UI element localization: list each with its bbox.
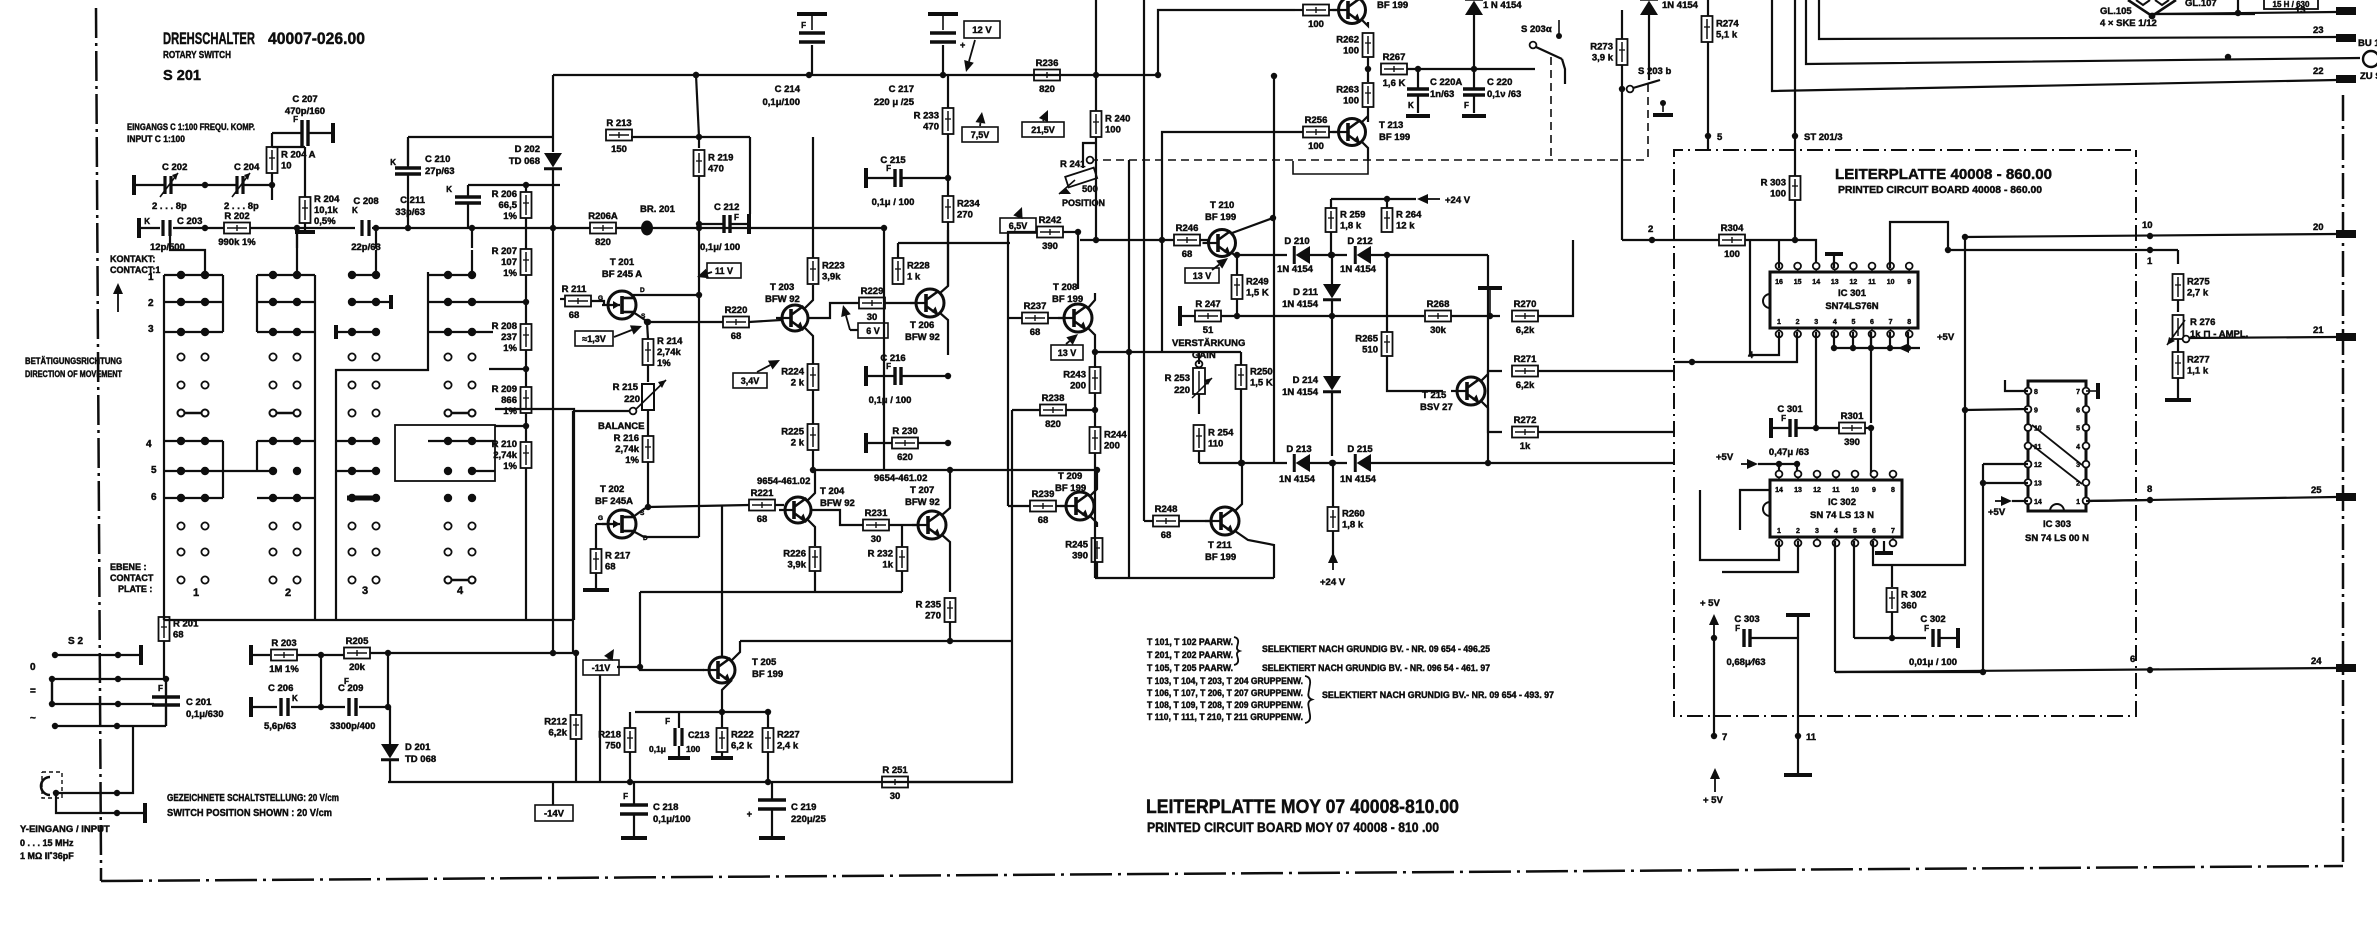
svg-text:820: 820 xyxy=(1045,419,1061,430)
svg-text:100: 100 xyxy=(1105,125,1121,136)
gnd stem c303 xyxy=(1797,615,1799,736)
R217 bottom xyxy=(595,573,597,588)
svg-text:6,5V: 6,5V xyxy=(1009,221,1028,231)
ground bottom c303 xyxy=(1784,773,1812,777)
svg-text:C 301: C 301 xyxy=(1777,404,1803,415)
T205 base up xyxy=(639,592,641,667)
R225 down xyxy=(812,450,814,470)
svg-text:R301: R301 xyxy=(1841,411,1864,422)
IC302 pin4 route xyxy=(1834,541,1836,672)
svg-text:BSV 27: BSV 27 xyxy=(1420,402,1453,413)
IC302 pin8/9 up xyxy=(1870,465,1872,476)
svg-text:1,1 k: 1,1 k xyxy=(2187,366,2209,377)
svg-text:2,7 k: 2,7 k xyxy=(2187,288,2209,299)
resistor R245 xyxy=(1065,538,1102,562)
svg-text:30: 30 xyxy=(890,791,901,802)
svg-text:68: 68 xyxy=(1161,530,1172,541)
IC301 pin10 route xyxy=(1890,222,1948,268)
potentiometer R276 xyxy=(2167,315,2185,345)
svg-text:5: 5 xyxy=(151,465,157,476)
svg-text:INPUT C 1:100: INPUT C 1:100 xyxy=(127,134,185,144)
svg-text:3,4V: 3,4V xyxy=(741,376,760,386)
S2 junction g xyxy=(52,723,58,729)
resistor R234 xyxy=(943,196,981,222)
svg-text:T 203: T 203 xyxy=(770,282,794,293)
R234 bottom xyxy=(947,222,949,286)
svg-text:0,1μ/100: 0,1μ/100 xyxy=(653,814,691,825)
svg-text:100: 100 xyxy=(1343,46,1359,57)
connector 20 xyxy=(2336,230,2356,238)
wire T203-R229 xyxy=(808,303,859,318)
svg-text:7: 7 xyxy=(1889,319,1893,326)
IC301 pin8 down xyxy=(1907,332,1909,348)
svg-text:≈1,3V: ≈1,3V xyxy=(582,334,605,344)
capacitor C203 xyxy=(144,216,202,253)
svg-text:390: 390 xyxy=(1042,241,1058,252)
C220A stem top xyxy=(1417,69,1419,89)
svg-text:R 254: R 254 xyxy=(1208,428,1234,439)
13Va leader xyxy=(1066,334,1078,345)
svg-text:C 206: C 206 xyxy=(268,683,293,694)
R238-R251 link xyxy=(1011,410,1013,641)
resistor R247 xyxy=(1195,299,1221,336)
wire T201 source xyxy=(633,312,647,322)
T212 emitter xyxy=(1362,20,1368,26)
label D213 xyxy=(1279,444,1316,485)
junction GL xyxy=(2235,10,2241,16)
svg-text:1N 4154: 1N 4154 xyxy=(1277,264,1314,275)
3,4V leader xyxy=(757,360,780,372)
IC302 pin7 stem xyxy=(1883,541,1885,551)
svg-text:T 201: T 201 xyxy=(610,257,635,268)
C218 ground xyxy=(621,836,647,840)
svg-text:1: 1 xyxy=(148,272,154,283)
C211 stem xyxy=(467,203,469,228)
label R276 xyxy=(2190,317,2248,340)
21,5V leader xyxy=(1039,110,1048,122)
R264 top xyxy=(1386,199,1388,208)
diode D-1N4154 a xyxy=(1465,0,1483,15)
1,3V leader xyxy=(614,325,642,337)
num 25 xyxy=(2311,485,2322,496)
IC303 pin14 wire xyxy=(2012,500,2028,502)
svg-text:R 264: R 264 xyxy=(1396,210,1422,221)
resistor R259 xyxy=(1326,208,1366,232)
R231 left xyxy=(812,510,863,525)
svg-text:20k: 20k xyxy=(349,662,366,673)
D214 bottom xyxy=(1331,393,1333,456)
S201 inner box xyxy=(395,425,495,481)
diode D210 xyxy=(1294,246,1310,264)
svg-text:T 101, T 102 PAARW.: T 101, T 102 PAARW. xyxy=(1147,637,1233,647)
svg-text:R229: R229 xyxy=(861,286,884,297)
S201 group4 wiring xyxy=(428,275,526,471)
R223 up xyxy=(812,137,814,224)
T208 emitter xyxy=(1088,328,1095,368)
IC301 rail dot 1 xyxy=(1850,345,1856,351)
title PCB 860 xyxy=(1838,184,2042,196)
resistor R212 xyxy=(544,715,581,739)
svg-text:68: 68 xyxy=(1030,327,1041,338)
junction R212 top xyxy=(573,650,579,656)
C302 right xyxy=(1940,637,1956,639)
svg-text:68: 68 xyxy=(1038,515,1049,526)
gnd stem c303 b xyxy=(1797,736,1799,773)
junction rail b xyxy=(806,72,812,78)
diode D213 xyxy=(1294,454,1310,472)
R241 top wire xyxy=(1083,143,1096,168)
line24 inner xyxy=(1835,671,1983,673)
wire R208-R209 xyxy=(525,350,527,387)
svg-text:390: 390 xyxy=(1072,551,1088,562)
line 20 xyxy=(1965,234,2336,237)
transistor T213 xyxy=(1333,119,1366,146)
svg-text:SELEKTIERT NACH GRUNDIG B: SELEKTIERT NACH GRUNDIG BV. - NR. 09 654… xyxy=(1262,644,1490,654)
loop T204 xyxy=(814,533,816,546)
voltage label 6V xyxy=(858,323,888,338)
svg-text:1k ⊓ - AMPL.: 1k ⊓ - AMPL. xyxy=(2190,329,2248,340)
wire R219 hang xyxy=(698,137,700,148)
R216 bottom xyxy=(647,462,649,507)
R242 right xyxy=(1063,231,1078,233)
R244 down xyxy=(1094,453,1096,578)
R247 left xyxy=(1181,315,1195,317)
sel line3b xyxy=(1262,663,1490,673)
connector 24 xyxy=(2336,664,2356,672)
svg-text:270: 270 xyxy=(957,210,973,221)
R201 bottom xyxy=(164,641,166,679)
R204 top xyxy=(304,147,306,197)
svg-text:BF 199: BF 199 xyxy=(1205,212,1236,223)
rail y316 xyxy=(1221,315,1424,317)
svg-text:R223: R223 xyxy=(822,261,845,272)
svg-text:C 207: C 207 xyxy=(292,94,317,105)
text BETAETIGUNGSRICHTUNG xyxy=(25,356,122,366)
text VERSTAERKUNG xyxy=(1172,338,1245,349)
svg-text:13: 13 xyxy=(1794,487,1802,494)
R241 wiper circle xyxy=(1087,157,1094,164)
C301-R301 xyxy=(1797,427,1839,429)
wire C208 right xyxy=(372,227,590,229)
capacitor C302 xyxy=(1924,624,1939,647)
text KONTAKT xyxy=(110,254,155,264)
svg-text:7,5V: 7,5V xyxy=(971,130,990,140)
num 23 xyxy=(2313,25,2324,36)
title LEITERPLATTE 860 xyxy=(1835,167,2052,183)
resistor R302 xyxy=(1887,588,1927,612)
svg-text:1 MΩ II˚36pF: 1 MΩ II˚36pF xyxy=(20,851,74,861)
C216 left xyxy=(868,375,894,377)
svg-text:6: 6 xyxy=(2130,654,2135,665)
svg-text:+24 V: +24 V xyxy=(1320,577,1346,588)
svg-text:237: 237 xyxy=(501,332,517,343)
svg-text:12 k: 12 k xyxy=(1396,221,1415,232)
junction bus1274 xyxy=(1271,73,1277,79)
R203-R205 xyxy=(297,654,344,656)
svg-text:8: 8 xyxy=(2147,484,2152,495)
junction y641 xyxy=(947,638,953,644)
transistor T215 xyxy=(1451,377,1485,405)
C211 stem up xyxy=(467,185,469,197)
label T211 xyxy=(1205,540,1236,563)
junction ST201 xyxy=(1792,133,1798,139)
junction R264 xyxy=(1384,252,1390,258)
resistor R273 xyxy=(1590,39,1627,65)
svg-text:5,1 k: 5,1 k xyxy=(1716,30,1738,41)
C214 stem xyxy=(811,45,813,75)
C213 top xyxy=(678,712,680,728)
S2 wire pole2 xyxy=(52,678,166,680)
resistor R256 xyxy=(1303,115,1329,152)
resistor R244 xyxy=(1090,427,1128,453)
label GL105b xyxy=(2100,18,2157,29)
transistor T204 xyxy=(779,497,811,523)
C211 wire left xyxy=(468,184,520,186)
IC U302 SN74LS13N xyxy=(1763,471,1902,547)
svg-text:4: 4 xyxy=(1833,319,1837,326)
line 25 xyxy=(2086,497,2336,501)
wire C208 to col3 xyxy=(375,250,377,275)
svg-text:100: 100 xyxy=(686,744,700,754)
R201 top xyxy=(163,617,165,620)
resistor R222 xyxy=(717,728,754,752)
R223 top xyxy=(812,224,814,258)
svg-text:1%: 1% xyxy=(657,358,671,369)
resistor R220 xyxy=(723,305,749,342)
junction gain xyxy=(1092,349,1098,355)
svg-text:2: 2 xyxy=(285,587,291,599)
C302 rail xyxy=(1854,637,1926,639)
C220 stem bot xyxy=(1473,95,1475,113)
svg-text:R 214: R 214 xyxy=(657,336,683,347)
svg-text:100: 100 xyxy=(1724,249,1740,260)
junction T205 base xyxy=(637,664,643,670)
sel line1 xyxy=(1147,637,1233,647)
R218 bottom xyxy=(629,752,631,782)
bus x1144 xyxy=(1143,0,1145,521)
svg-text:SN 74 LS 13 N: SN 74 LS 13 N xyxy=(1810,510,1874,521)
svg-text:-11V: -11V xyxy=(592,663,611,673)
R205 to R212 xyxy=(575,653,577,705)
svg-text:R274: R274 xyxy=(1716,19,1739,30)
voltage label 6,5V xyxy=(1000,218,1036,233)
wire col4 stem xyxy=(471,228,473,248)
svg-text:8: 8 xyxy=(1907,319,1911,326)
T206 emitter xyxy=(940,313,948,355)
R238 left xyxy=(1012,409,1040,411)
resistor R232 xyxy=(868,547,908,571)
label D214 xyxy=(1282,375,1319,398)
svg-text:T 202: T 202 xyxy=(600,484,624,495)
svg-text:14: 14 xyxy=(1812,279,1820,286)
resistor R265 xyxy=(1355,332,1392,356)
svg-text:R 217: R 217 xyxy=(605,551,630,562)
svg-text:R218: R218 xyxy=(598,730,621,741)
IC U303 SN74LS00N xyxy=(2025,381,2090,511)
resistor R210 xyxy=(492,439,532,472)
label T208 xyxy=(1052,282,1083,305)
svg-text:R221: R221 xyxy=(751,488,774,499)
text 1M 36pF xyxy=(20,851,74,861)
S2 contact dashed box xyxy=(42,772,62,798)
+24V rail top xyxy=(1331,198,1416,200)
svg-text:0,1μ/100: 0,1μ/100 xyxy=(762,97,800,108)
svg-text:750: 750 xyxy=(605,741,621,752)
emitter join y592 xyxy=(640,591,902,593)
text 9654a xyxy=(757,476,810,487)
svg-text:EBENE :: EBENE : xyxy=(110,562,147,572)
sel brace1 xyxy=(1234,637,1240,665)
label T207 xyxy=(905,485,940,508)
C201 stem xyxy=(165,679,167,697)
num 21 xyxy=(2313,325,2324,336)
S201 group3 wiring xyxy=(336,275,376,471)
svg-text:13: 13 xyxy=(2034,481,2042,488)
R267 right xyxy=(1407,68,1535,70)
S2 wire to C201 xyxy=(165,679,167,726)
svg-text:100: 100 xyxy=(1770,189,1786,200)
label BU10 xyxy=(2358,38,2377,49)
+5V arrow IC302 xyxy=(1741,459,1758,469)
svg-text:GL.105: GL.105 xyxy=(2100,6,2132,17)
C209 right xyxy=(359,706,388,708)
transistor T206 xyxy=(910,289,944,317)
text DIRECTION OF MOVEMENT xyxy=(25,369,122,379)
wire R202-right xyxy=(250,227,355,229)
junction D211 bot xyxy=(1329,313,1335,319)
13Vb leader xyxy=(1212,258,1228,270)
R240-T210 wire xyxy=(1080,239,1174,241)
capacitor C212 xyxy=(724,215,730,233)
label T204 xyxy=(820,486,855,509)
page border right xyxy=(2342,95,2345,866)
junction R240-240 xyxy=(1093,237,1099,243)
svg-text:1n/63: 1n/63 xyxy=(1430,89,1454,100)
svg-text:SN74LS76N: SN74LS76N xyxy=(1825,301,1878,312)
junction R256-240 xyxy=(1159,237,1165,243)
R277 down xyxy=(2177,378,2179,398)
wire R207-R208 xyxy=(525,275,527,324)
svg-text:3300p/400: 3300p/400 xyxy=(330,721,375,732)
C220A stem bot xyxy=(1417,95,1419,113)
contact row 6 xyxy=(151,492,157,503)
svg-text:51: 51 xyxy=(1203,325,1214,336)
svg-text:1%: 1% xyxy=(503,343,517,354)
S201 group2 wiring xyxy=(257,275,315,498)
resistor R301 xyxy=(1839,411,1865,448)
S201 shorting bar d xyxy=(445,577,476,584)
+12V rail xyxy=(553,74,1158,76)
R304 to IC301 xyxy=(1795,240,1816,268)
label T210 xyxy=(1205,200,1236,223)
svg-text:820: 820 xyxy=(595,237,611,248)
wire x696 rail xyxy=(696,75,699,137)
svg-text:+5V: +5V xyxy=(1988,507,2006,518)
S201 right outline xyxy=(495,409,574,620)
svg-text:5: 5 xyxy=(1853,528,1857,535)
svg-text:470p/160: 470p/160 xyxy=(285,106,325,117)
resistor R211 xyxy=(562,284,591,321)
C301 left xyxy=(1772,427,1789,429)
text Y-EINGANG xyxy=(20,824,110,835)
resistor R204A xyxy=(267,147,316,173)
svg-text:470: 470 xyxy=(923,122,939,133)
resistor R216 xyxy=(614,433,654,466)
C220A ground xyxy=(1406,114,1430,118)
contact row 1 xyxy=(148,272,154,283)
R237 left xyxy=(1008,317,1022,319)
svg-text:25: 25 xyxy=(2311,485,2322,496)
svg-text:R 208: R 208 xyxy=(492,321,517,332)
T204 emitter xyxy=(808,520,815,533)
R265 bottom xyxy=(1387,356,1443,391)
svg-text:K: K xyxy=(1408,101,1414,110)
IC301 rail dot 2 xyxy=(1868,345,1874,351)
junction x1983 xyxy=(1980,669,1986,675)
label +5V IC303 xyxy=(1988,507,2006,518)
label D211 xyxy=(1282,287,1319,310)
label C302 xyxy=(1909,614,1957,668)
svg-text:12: 12 xyxy=(1813,487,1821,494)
wire R202 junction feed xyxy=(296,228,298,250)
x1983 vertical xyxy=(1982,464,1984,672)
svg-text:R239: R239 xyxy=(1032,489,1055,500)
R262-R267 xyxy=(1367,57,1369,82)
svg-text:11: 11 xyxy=(1868,279,1876,286)
svg-text:0,1ν /63: 0,1ν /63 xyxy=(1487,89,1521,100)
svg-text:9: 9 xyxy=(1907,279,1911,286)
svg-text:C 214: C 214 xyxy=(775,84,801,95)
svg-text:-14V: -14V xyxy=(544,809,565,820)
wire R229-T206 xyxy=(885,302,916,304)
link x321 xyxy=(320,655,322,707)
voltage label 13V a xyxy=(1051,345,1083,360)
voltage label 21,5V xyxy=(1022,122,1064,137)
svg-text:T 204: T 204 xyxy=(820,486,845,497)
switch S2 label xyxy=(68,636,83,647)
junction ic302 b xyxy=(1794,461,1800,467)
resistor R304 xyxy=(1719,223,1745,260)
junction R302 xyxy=(1889,635,1895,641)
IC302 5v rail xyxy=(1758,463,1797,465)
rotary switch S201 contact grid xyxy=(177,271,476,584)
IC301 pin6 down xyxy=(1870,332,1872,348)
plate 1 xyxy=(193,587,199,599)
svg-text:6: 6 xyxy=(1870,319,1874,326)
svg-text:10: 10 xyxy=(2142,220,2153,231)
svg-text:R268: R268 xyxy=(1427,299,1450,310)
R268 right xyxy=(1451,315,1500,317)
S2 pole 0 xyxy=(30,662,36,673)
resistor R224 xyxy=(781,364,818,390)
svg-text:200: 200 xyxy=(1070,381,1086,392)
svg-text:BF 199: BF 199 xyxy=(1205,552,1236,563)
junction T202 S xyxy=(645,504,651,510)
svg-text:0: 0 xyxy=(30,662,36,673)
svg-text:24: 24 xyxy=(2311,656,2322,667)
svg-text:ST 201/3: ST 201/3 xyxy=(1804,132,1843,143)
capacitor C214 xyxy=(762,14,827,108)
svg-text:6: 6 xyxy=(2076,407,2080,414)
num 20 xyxy=(2313,222,2324,233)
svg-text:15: 15 xyxy=(1794,279,1802,286)
wire ST201 cont xyxy=(1794,136,1796,176)
sel brace2 xyxy=(1305,676,1312,723)
resistor R209 xyxy=(492,384,532,417)
svg-text:R243: R243 xyxy=(1063,370,1086,381)
wire C203 row to contacts xyxy=(170,228,205,275)
R245 down xyxy=(1096,562,1098,578)
